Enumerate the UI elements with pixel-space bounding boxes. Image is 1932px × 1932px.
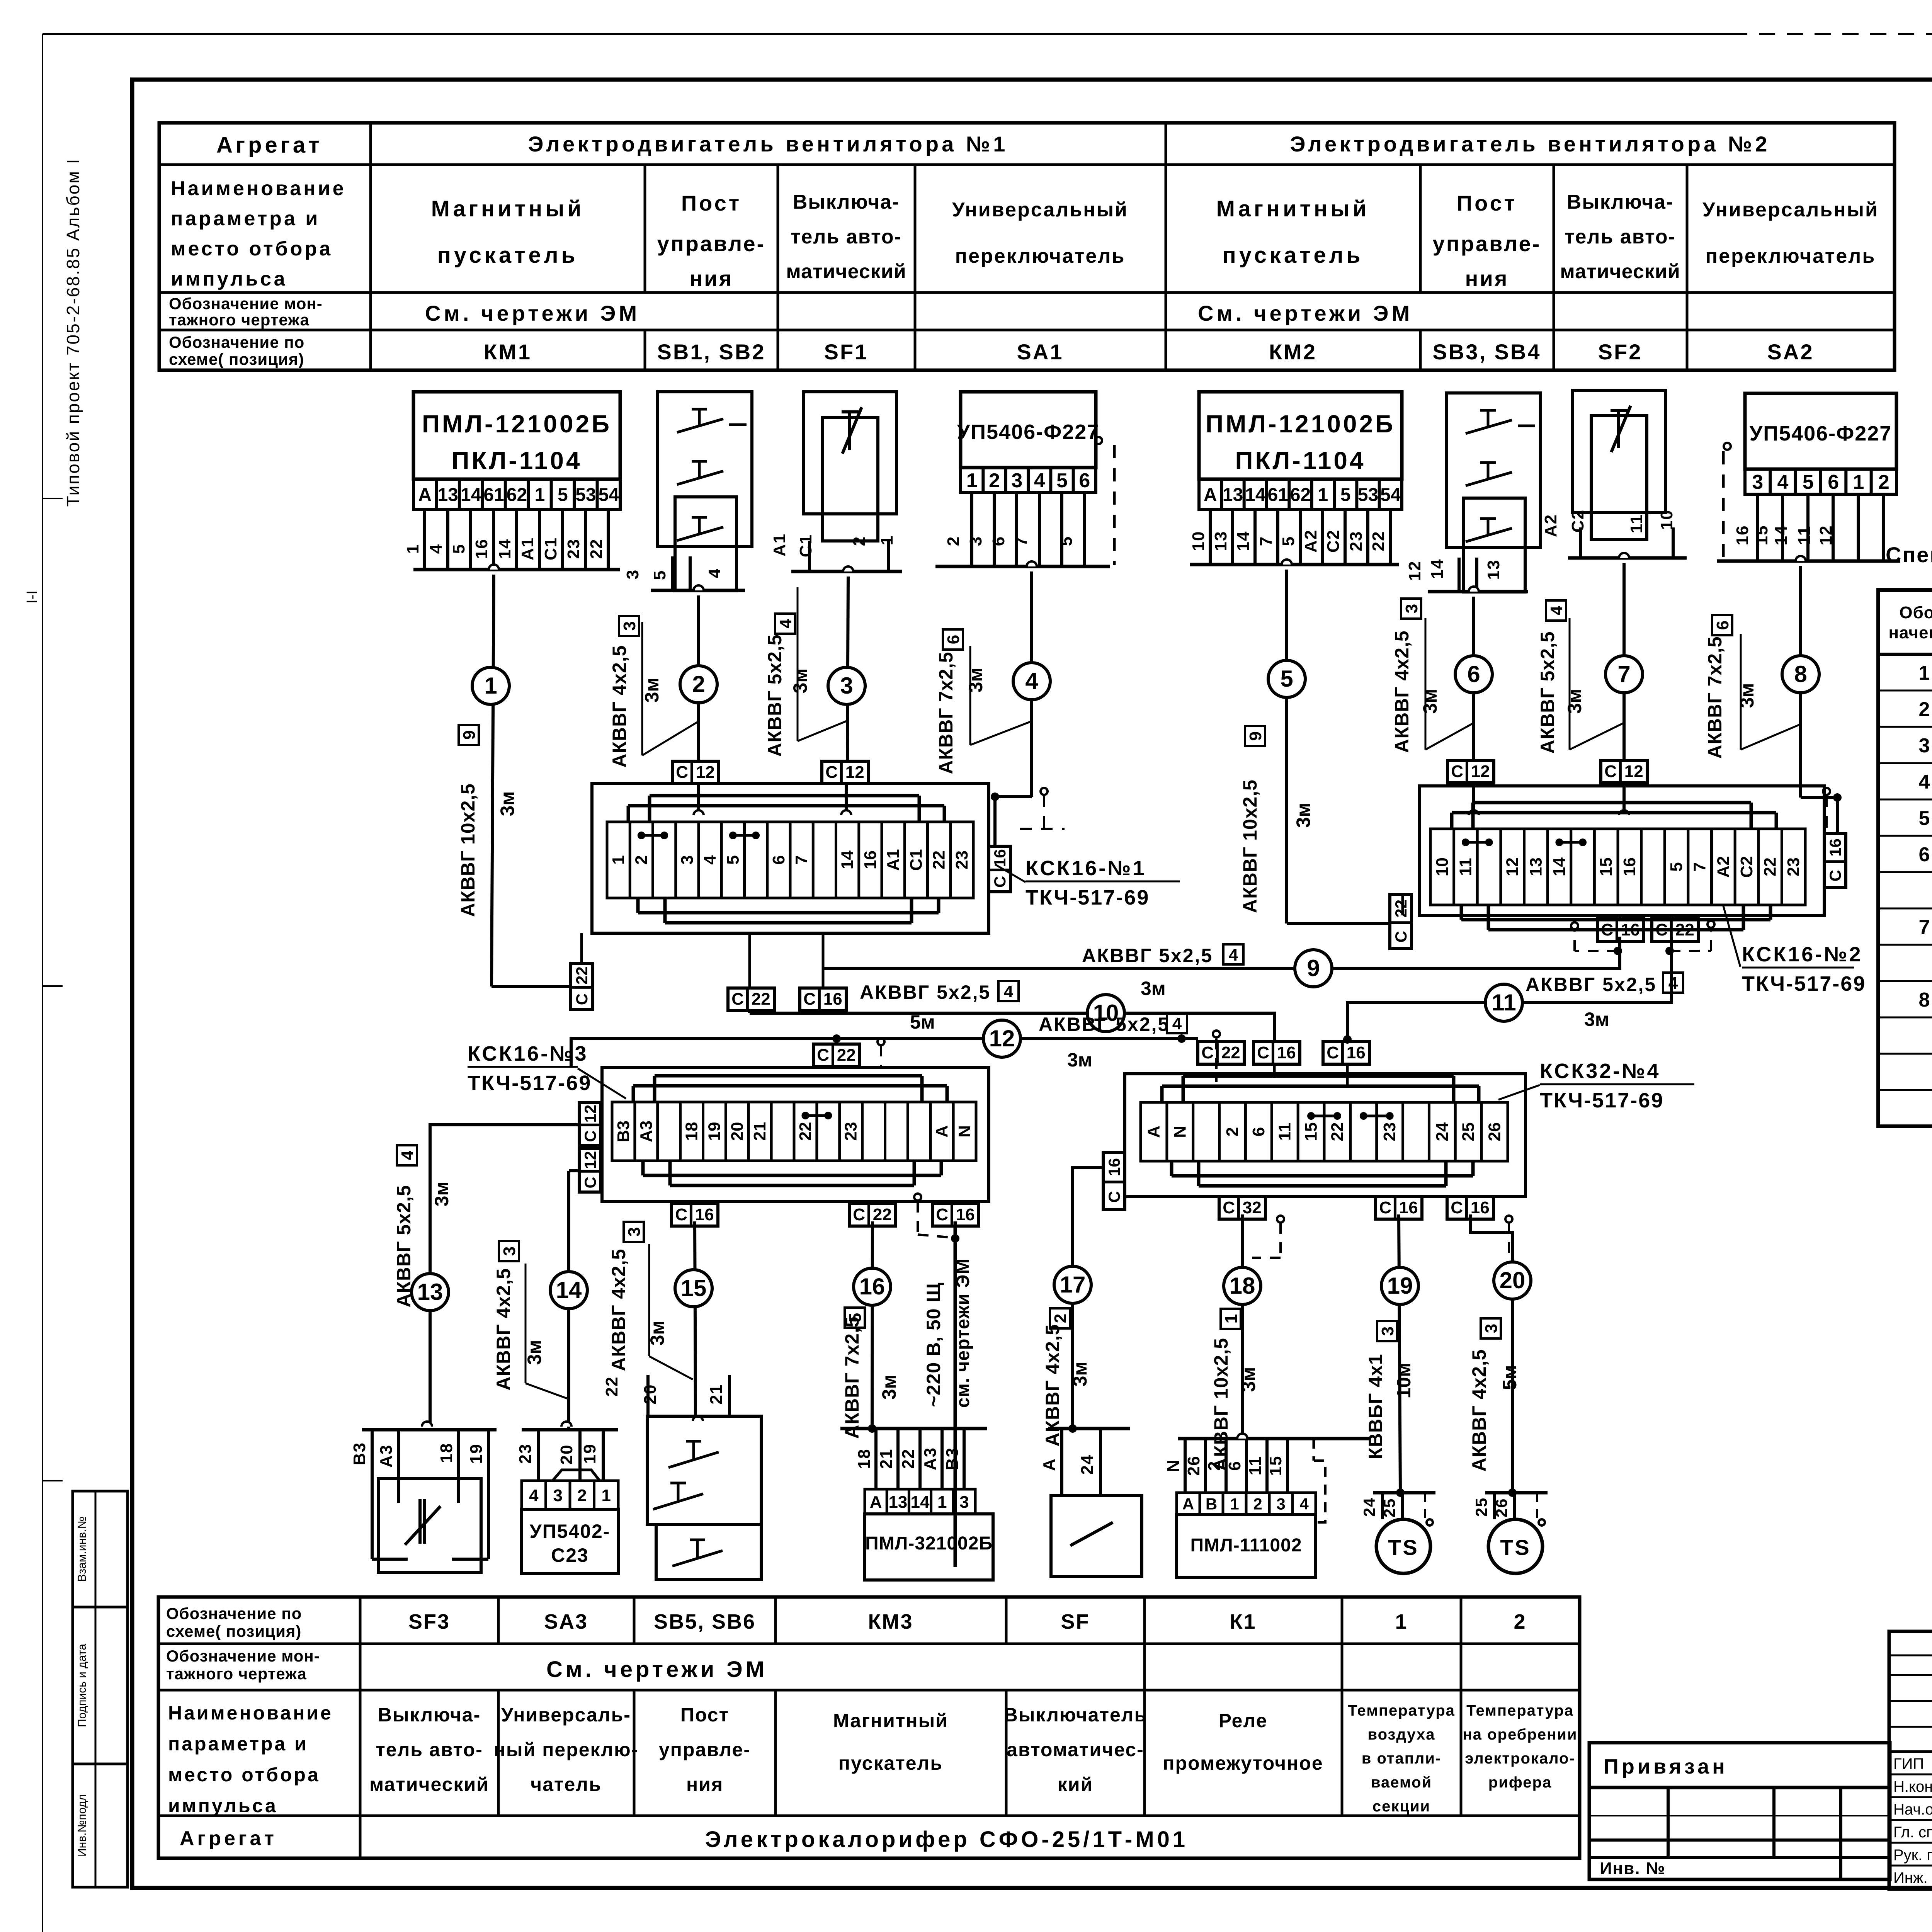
svg-text:11: 11 <box>1276 1123 1294 1141</box>
KM1 bus bar <box>413 568 620 571</box>
svg-text:А2: А2 <box>1714 856 1733 878</box>
svg-text:Инж.: Инж. <box>1893 1869 1928 1886</box>
svg-text:ГИП: ГИП <box>1893 1755 1924 1772</box>
svg-text:промежуточное: промежуточное <box>1163 1752 1323 1774</box>
svg-text:11: 11 <box>1492 990 1516 1015</box>
svg-text:С1: С1 <box>541 537 560 560</box>
wire 1 (cable AKVVG 10x2.5) <box>489 565 499 570</box>
junction box КСК32-№4 <box>1125 1074 1526 1197</box>
wire 3 (cable AKVVG 5x2.5) <box>843 566 853 571</box>
svg-text:Типовой проект 705-2-68.85: Типовой проект 705-2-68.85 Альбом I <box>63 158 83 507</box>
svg-text:22: 22 <box>1221 1043 1240 1062</box>
svg-text:импульса: импульса <box>171 268 287 290</box>
svg-text:3: 3 <box>1378 1327 1397 1336</box>
svg-text:23: 23 <box>952 850 971 869</box>
push-button post SB5,SB6 <box>646 1375 650 1416</box>
svg-text:18: 18 <box>437 1443 456 1463</box>
svg-text:Агрегат: Агрегат <box>216 133 323 158</box>
KSK3 bottom boxes <box>672 1204 718 1226</box>
svg-text:5: 5 <box>1803 471 1814 493</box>
svg-text:15: 15 <box>681 1275 707 1301</box>
svg-text:62: 62 <box>507 485 527 505</box>
intermediate relay K1 PML-111002 <box>1178 1437 1370 1440</box>
svg-text:АКВВГ 5х2,5: АКВВГ 5х2,5 <box>1537 631 1558 753</box>
svg-text:7: 7 <box>1257 536 1276 546</box>
svg-text:Универсальный: Универсальный <box>952 199 1128 221</box>
svg-text:А: А <box>1040 1458 1059 1471</box>
svg-text:С: С <box>1601 920 1613 939</box>
svg-text:А3: А3 <box>377 1444 396 1468</box>
svg-text:9: 9 <box>1246 731 1265 741</box>
svg-text:Выключа-: Выключа- <box>1567 191 1674 213</box>
svg-text:3м: 3м <box>497 791 518 816</box>
svg-text:14: 14 <box>556 1277 582 1303</box>
svg-text:20: 20 <box>728 1122 747 1141</box>
svg-text:4: 4 <box>529 1486 539 1505</box>
svg-text:14: 14 <box>1550 857 1569 876</box>
svg-text:С: С <box>1223 1198 1235 1217</box>
svg-text:С: С <box>1327 1043 1339 1062</box>
svg-text:~220 В, 50 Щ: ~220 В, 50 Щ <box>923 1282 944 1407</box>
220V supply wire <box>914 1194 921 1201</box>
svg-text:место отбора: место отбора <box>168 1764 320 1786</box>
svg-text:электрокало-: электрокало- <box>1465 1750 1575 1767</box>
svg-text:62: 62 <box>1290 485 1311 505</box>
svg-text:кий: кий <box>1058 1774 1094 1795</box>
svg-text:Выключа-: Выключа- <box>793 191 900 213</box>
svg-text:3: 3 <box>1482 1324 1501 1333</box>
svg-text:секции: секции <box>1372 1798 1430 1815</box>
svg-text:3: 3 <box>1276 1495 1285 1513</box>
svg-text:АКВВГ 5х2,5: АКВВГ 5х2,5 <box>764 634 786 757</box>
svg-text:1: 1 <box>1230 1495 1239 1513</box>
wire 5 (cable AKVVG 10x2.5) <box>1282 560 1292 565</box>
svg-text:ваемой: ваемой <box>1371 1774 1432 1791</box>
wire 11 (cable AKVVG 5x2.5) <box>1347 937 1672 1042</box>
svg-text:3м: 3м <box>1564 689 1585 714</box>
svg-text:3м: 3м <box>1419 689 1441 714</box>
svg-text:управле-: управле- <box>659 1739 751 1760</box>
svg-text:А: А <box>932 1125 951 1138</box>
wire 20 (cable AKVVG 4x2.5) <box>1470 1214 1512 1493</box>
circuit breaker SF3 <box>362 1428 497 1432</box>
svg-text:23: 23 <box>1347 531 1366 551</box>
svg-text:11: 11 <box>1456 858 1475 876</box>
svg-text:4: 4 <box>1034 469 1045 492</box>
svg-text:16: 16 <box>1399 1198 1418 1217</box>
svg-text:на оребрении: на оребрении <box>1463 1726 1578 1743</box>
svg-text:С: С <box>817 1046 829 1065</box>
svg-text:3м: 3м <box>1238 1367 1259 1392</box>
svg-text:12: 12 <box>581 1151 599 1169</box>
svg-text:4: 4 <box>1299 1495 1309 1513</box>
svg-text:4: 4 <box>1547 605 1566 615</box>
svg-text:АКВВГ 4х2,5: АКВВГ 4х2,5 <box>493 1268 514 1390</box>
cable label 13 <box>397 1145 417 1165</box>
svg-text:23: 23 <box>1380 1122 1399 1141</box>
cable label 16 <box>845 1308 865 1328</box>
svg-text:В3: В3 <box>943 1447 962 1470</box>
svg-text:4: 4 <box>1172 1014 1182 1033</box>
svg-text:А1: А1 <box>884 849 903 871</box>
connector box C12 for wire 7 <box>1601 760 1647 783</box>
svg-text:АКВВГ 4х2,5: АКВВГ 4х2,5 <box>608 1248 629 1371</box>
svg-text:16: 16 <box>823 990 842 1009</box>
left margin stamp boxes <box>73 1491 128 1607</box>
KSK4 bottom boxes <box>1219 1197 1265 1219</box>
svg-text:ния: ния <box>690 266 733 291</box>
svg-text:Обозначение по: Обозначение по <box>166 1604 302 1622</box>
svg-text:12: 12 <box>1624 762 1643 781</box>
svg-text:18: 18 <box>1230 1273 1255 1299</box>
svg-text:АКВВГ 4х2,5: АКВВГ 4х2,5 <box>1468 1349 1490 1471</box>
svg-text:АКВВГ 5х2,5: АКВВГ 5х2,5 <box>860 981 991 1003</box>
KSK1 bottom exit stubs <box>748 933 751 988</box>
svg-text:параметра и: параметра и <box>168 1733 308 1755</box>
svg-text:Пост: Пост <box>681 191 742 215</box>
svg-text:20: 20 <box>1500 1267 1526 1293</box>
cable label 2 <box>619 616 639 636</box>
svg-text:4: 4 <box>701 855 719 865</box>
svg-text:13: 13 <box>1211 531 1230 551</box>
svg-text:С2: С2 <box>1737 856 1756 878</box>
svg-text:18: 18 <box>855 1449 874 1469</box>
svg-text:25: 25 <box>1380 1498 1398 1518</box>
svg-text:С: С <box>581 1177 599 1188</box>
svg-text:пускатель: пускатель <box>437 243 578 268</box>
svg-text:3: 3 <box>623 569 642 579</box>
svg-text:АКВВГ 5х2,5: АКВВГ 5х2,5 <box>1082 945 1213 966</box>
svg-text:13: 13 <box>1484 560 1503 580</box>
svg-text:переключатель: переключатель <box>1706 245 1876 267</box>
svg-text:22: 22 <box>1675 920 1694 939</box>
SA1 dashed spare wire <box>1095 437 1102 444</box>
wire 4 (cable AKVVG 7x2.5) <box>1027 561 1037 566</box>
svg-text:С: С <box>1826 870 1844 881</box>
svg-text:Электрокалорифер СФО-25/1Т-М0: Электрокалорифер СФО-25/1Т-М01 <box>705 1827 1188 1852</box>
svg-text:SB1, SB2: SB1, SB2 <box>657 340 766 364</box>
svg-text:25: 25 <box>1472 1497 1490 1517</box>
temperature sensor TS 2 <box>1485 1491 1548 1495</box>
svg-text:УП5402-: УП5402- <box>530 1520 611 1542</box>
cable label 7 <box>1546 600 1566 621</box>
svg-text:ТКЧ-517-69: ТКЧ-517-69 <box>1540 1089 1664 1112</box>
svg-text:С: С <box>991 876 1009 888</box>
svg-text:23: 23 <box>842 1122 861 1141</box>
svg-text:24: 24 <box>1078 1454 1097 1475</box>
connector box C12 for wire 3 <box>822 761 868 784</box>
svg-text:SA2: SA2 <box>1767 340 1814 364</box>
push-button post SB1,SB2 <box>658 392 752 546</box>
svg-text:1: 1 <box>1395 1610 1408 1633</box>
cable label 5 <box>1245 726 1265 746</box>
svg-text:23: 23 <box>1784 857 1803 876</box>
SF2 bus and leads <box>1568 556 1687 560</box>
svg-text:В3: В3 <box>350 1442 369 1465</box>
svg-text:23: 23 <box>564 539 583 559</box>
svg-text:Температура: Температура <box>1348 1702 1455 1719</box>
svg-text:2: 2 <box>1514 1610 1526 1633</box>
svg-text:22: 22 <box>1761 857 1780 876</box>
svg-text:А: А <box>1204 485 1217 505</box>
svg-text:С: С <box>803 990 816 1009</box>
svg-text:Наименование: Наименование <box>171 177 346 200</box>
svg-text:АКВВГ 5х2,5: АКВВГ 5х2,5 <box>393 1185 415 1307</box>
svg-text:ПМЛ-321002Б: ПМЛ-321002Б <box>865 1533 993 1554</box>
wire 15 (cable AKVVG 4x2.5) <box>695 1221 696 1421</box>
svg-text:26: 26 <box>1184 1456 1203 1476</box>
svg-text:пускатель: пускатель <box>1223 243 1364 268</box>
svg-text:12: 12 <box>696 763 715 782</box>
svg-text:Обозначение мон-: Обозначение мон- <box>166 1647 320 1665</box>
svg-text:ТКЧ-517-69: ТКЧ-517-69 <box>1026 886 1150 909</box>
wire 8 dashed ground tail <box>1823 788 1830 795</box>
svg-text:TS: TS <box>1388 1535 1419 1560</box>
svg-text:В: В <box>1206 1495 1217 1513</box>
svg-text:3: 3 <box>620 621 639 631</box>
svg-text:3: 3 <box>1402 604 1421 613</box>
svg-text:11: 11 <box>1627 514 1646 534</box>
svg-text:Реле: Реле <box>1219 1710 1268 1731</box>
svg-text:3: 3 <box>500 1247 519 1256</box>
svg-text:1: 1 <box>1318 485 1328 505</box>
svg-text:4: 4 <box>1668 974 1678 993</box>
svg-text:22: 22 <box>1369 531 1388 551</box>
svg-text:6: 6 <box>1467 661 1480 687</box>
universal switch SA2 UP5406-F227 <box>1745 393 1896 469</box>
svg-text:10м: 10м <box>1393 1363 1415 1399</box>
svg-text:10: 10 <box>1657 510 1676 530</box>
svg-text:С: С <box>1379 1198 1391 1217</box>
svg-text:Инв.№подл: Инв.№подл <box>76 1794 88 1857</box>
svg-text:3: 3 <box>1011 469 1022 492</box>
svg-text:ПКЛ-1104: ПКЛ-1104 <box>451 447 582 474</box>
svg-text:1: 1 <box>403 544 422 554</box>
svg-text:3: 3 <box>1752 471 1763 493</box>
svg-text:13: 13 <box>417 1279 443 1305</box>
svg-text:16: 16 <box>859 1274 885 1299</box>
svg-text:Магнитный: Магнитный <box>431 196 585 221</box>
universal switch SA3 UP5402-C23 <box>522 1428 618 1432</box>
svg-text:26: 26 <box>1492 1498 1510 1518</box>
svg-text:12: 12 <box>845 763 864 782</box>
KSK2 bottom boxes <box>1597 919 1644 941</box>
svg-text:3м: 3м <box>1736 683 1758 708</box>
svg-text:КСК16-№1: КСК16-№1 <box>1026 857 1146 880</box>
svg-text:16: 16 <box>1733 525 1752 546</box>
svg-text:11: 11 <box>1246 1456 1265 1476</box>
svg-text:SA1: SA1 <box>1017 340 1064 364</box>
svg-text:Наименование: Наименование <box>168 1702 333 1724</box>
svg-text:7: 7 <box>1012 536 1031 546</box>
svg-text:Нач.отд.: Нач.отд. <box>1893 1801 1932 1818</box>
svg-text:4: 4 <box>398 1150 417 1160</box>
svg-text:13: 13 <box>888 1493 907 1512</box>
cable label 8 <box>1712 615 1732 635</box>
svg-text:С: С <box>825 763 838 782</box>
svg-text:16: 16 <box>472 539 491 559</box>
svg-text:9: 9 <box>460 730 479 740</box>
svg-text:1: 1 <box>1853 471 1864 493</box>
wire 16 (cable AKVVG 7x2.5) <box>872 1221 872 1429</box>
fold marks <box>43 498 63 499</box>
svg-text:воздуха: воздуха <box>1368 1726 1435 1743</box>
svg-text:20: 20 <box>641 1384 660 1405</box>
svg-text:14: 14 <box>838 850 857 869</box>
KSK1 right entry box C16 <box>989 846 1010 892</box>
svg-text:3: 3 <box>840 673 853 699</box>
svg-text:14: 14 <box>461 485 481 505</box>
KSK3 top entry box C22 <box>813 1044 860 1066</box>
svg-text:24: 24 <box>1360 1497 1378 1517</box>
svg-text:6: 6 <box>1225 1461 1244 1471</box>
svg-text:3: 3 <box>1919 735 1930 757</box>
svg-text:Магнитный: Магнитный <box>833 1710 948 1731</box>
cable label 18 <box>1221 1309 1241 1329</box>
svg-text:I-I: I-I <box>24 590 40 604</box>
svg-text:Электродвигатель вентилятор: Электродвигатель вентилятора №1 <box>528 132 1009 156</box>
KM2 bus bar <box>1190 563 1399 566</box>
svg-text:4: 4 <box>1777 471 1789 493</box>
SB1 bus and leads <box>651 589 745 592</box>
svg-text:12: 12 <box>1816 525 1835 546</box>
svg-text:24: 24 <box>1433 1122 1452 1141</box>
svg-text:ТКЧ-517-69: ТКЧ-517-69 <box>1742 972 1866 995</box>
svg-text:С23: С23 <box>551 1544 589 1566</box>
svg-text:Н.контр: Н.контр <box>1893 1778 1932 1795</box>
svg-text:Инв. №: Инв. № <box>1600 1859 1666 1878</box>
svg-text:15: 15 <box>1752 525 1771 546</box>
wire 7 (cable AKVVG 5x2.5) <box>1619 553 1629 558</box>
SB3 bus and leads <box>1428 590 1528 594</box>
svg-text:3м: 3м <box>1584 1009 1609 1030</box>
svg-text:тажного чертежа: тажного чертежа <box>169 311 310 329</box>
svg-text:11: 11 <box>1795 526 1814 545</box>
svg-text:13: 13 <box>437 485 458 505</box>
svg-text:матический: матический <box>369 1774 489 1795</box>
svg-text:4: 4 <box>705 568 724 578</box>
svg-text:Агрегат: Агрегат <box>180 1827 277 1850</box>
KSK4 left entry box C16 <box>1103 1152 1125 1209</box>
magnetic starter KM3 PML-321002B <box>840 1427 987 1430</box>
svg-text:4: 4 <box>1025 668 1038 694</box>
svg-text:С2: С2 <box>1568 509 1587 532</box>
svg-text:2: 2 <box>989 469 1000 492</box>
svg-text:С: С <box>1392 931 1410 942</box>
junction box КСК16-№1 <box>592 784 989 933</box>
svg-text:АКВВГ 10х2,5: АКВВГ 10х2,5 <box>1239 779 1261 913</box>
svg-text:14: 14 <box>1234 531 1253 551</box>
svg-text:2: 2 <box>1223 1127 1242 1136</box>
svg-text:А2: А2 <box>1301 529 1320 553</box>
wire 11 dashed ground <box>1670 950 1711 952</box>
svg-text:22: 22 <box>752 990 770 1009</box>
svg-text:Пост: Пост <box>680 1704 729 1726</box>
svg-text:5: 5 <box>1056 469 1068 492</box>
svg-text:7: 7 <box>792 855 811 864</box>
svg-text:25: 25 <box>1459 1122 1478 1141</box>
circuit breaker SF1 <box>804 392 896 514</box>
wire 12 (cable AKVVG 5x2.5) <box>571 1039 1198 1068</box>
KSK4 bottom dashed spares <box>1277 1216 1284 1223</box>
svg-text:С: С <box>853 1205 865 1224</box>
cable label 17 <box>1050 1308 1070 1328</box>
svg-text:См. чертежи ЭМ: См. чертежи ЭМ <box>1198 301 1413 325</box>
svg-text:А: А <box>1182 1495 1194 1513</box>
svg-text:TS: TS <box>1500 1535 1531 1560</box>
svg-text:А: А <box>418 485 432 505</box>
junction box КСК16-№2 <box>1419 786 1824 915</box>
svg-text:2: 2 <box>577 1486 587 1505</box>
svg-text:В3: В3 <box>614 1121 633 1142</box>
svg-text:Обоз-: Обоз- <box>1899 603 1932 622</box>
svg-text:С1: С1 <box>796 534 815 557</box>
wire 18 (cable AKVVG 10x2.5) <box>1241 1214 1244 1439</box>
svg-text:3м: 3м <box>1293 803 1314 828</box>
svg-text:7: 7 <box>1919 916 1930 939</box>
wire 4 dashed ground tail <box>1041 788 1048 795</box>
svg-text:АКВВГ 10х2,5: АКВВГ 10х2,5 <box>1210 1338 1232 1471</box>
cable label 15 <box>624 1222 644 1242</box>
svg-text:рифера: рифера <box>1488 1774 1552 1791</box>
svg-text:61: 61 <box>483 485 504 505</box>
svg-text:См. чертежи ЭМ: См. чертежи ЭМ <box>425 301 640 325</box>
svg-text:3м: 3м <box>646 1321 668 1346</box>
svg-text:2: 2 <box>1919 698 1930 721</box>
svg-text:2: 2 <box>692 671 705 697</box>
svg-text:5: 5 <box>1667 862 1686 871</box>
svg-text:SB3, SB4: SB3, SB4 <box>1433 340 1541 364</box>
svg-text:2: 2 <box>632 855 651 864</box>
svg-text:3: 3 <box>959 1493 969 1512</box>
svg-text:6: 6 <box>1713 621 1732 630</box>
svg-text:SF: SF <box>1061 1610 1090 1633</box>
svg-text:АКВВГ 4х2,5: АКВВГ 4х2,5 <box>609 645 630 767</box>
svg-text:SF1: SF1 <box>824 340 869 364</box>
svg-text:3м: 3м <box>965 668 986 693</box>
connector box C12 for wire 2 <box>672 761 719 784</box>
KM1 terminal leads <box>423 509 426 570</box>
svg-text:тель авто-: тель авто- <box>1565 226 1676 248</box>
specification table <box>1878 590 1932 1126</box>
svg-text:матический: матический <box>786 260 906 283</box>
svg-text:ПМЛ-111002: ПМЛ-111002 <box>1190 1535 1302 1556</box>
svg-text:6: 6 <box>769 855 788 864</box>
svg-text:А1: А1 <box>770 533 789 556</box>
svg-text:16: 16 <box>956 1205 975 1224</box>
svg-text:16: 16 <box>695 1205 714 1224</box>
svg-text:14: 14 <box>1772 525 1791 546</box>
wire 10 (cable AKVVG 5x2.5) <box>748 1011 751 1013</box>
svg-text:Привязан: Привязан <box>1604 1755 1728 1778</box>
svg-text:АКВВГ 7х2,5: АКВВГ 7х2,5 <box>841 1316 863 1439</box>
svg-text:С: С <box>1257 1043 1269 1062</box>
svg-text:АКВВГ 7х2,5: АКВВГ 7х2,5 <box>1704 636 1726 759</box>
svg-text:3: 3 <box>966 536 985 546</box>
svg-text:схеме( позиция): схеме( позиция) <box>166 1622 301 1640</box>
svg-text:Подпись и дата: Подпись и дата <box>76 1644 88 1727</box>
svg-text:А: А <box>1144 1126 1163 1138</box>
svg-text:7: 7 <box>1617 661 1630 687</box>
svg-text:Спецификация основных монтажны: Спецификация основных монтажных материал… <box>1886 543 1932 567</box>
svg-text:19: 19 <box>580 1444 599 1464</box>
svg-text:12: 12 <box>581 1105 599 1123</box>
svg-text:5: 5 <box>1279 536 1298 546</box>
temperature sensor TS 1 <box>1373 1491 1435 1495</box>
svg-text:22: 22 <box>602 1376 621 1397</box>
svg-text:22: 22 <box>837 1046 856 1065</box>
svg-text:Электродвигатель вентилятор: Электродвигатель вентилятора №2 <box>1290 132 1770 156</box>
